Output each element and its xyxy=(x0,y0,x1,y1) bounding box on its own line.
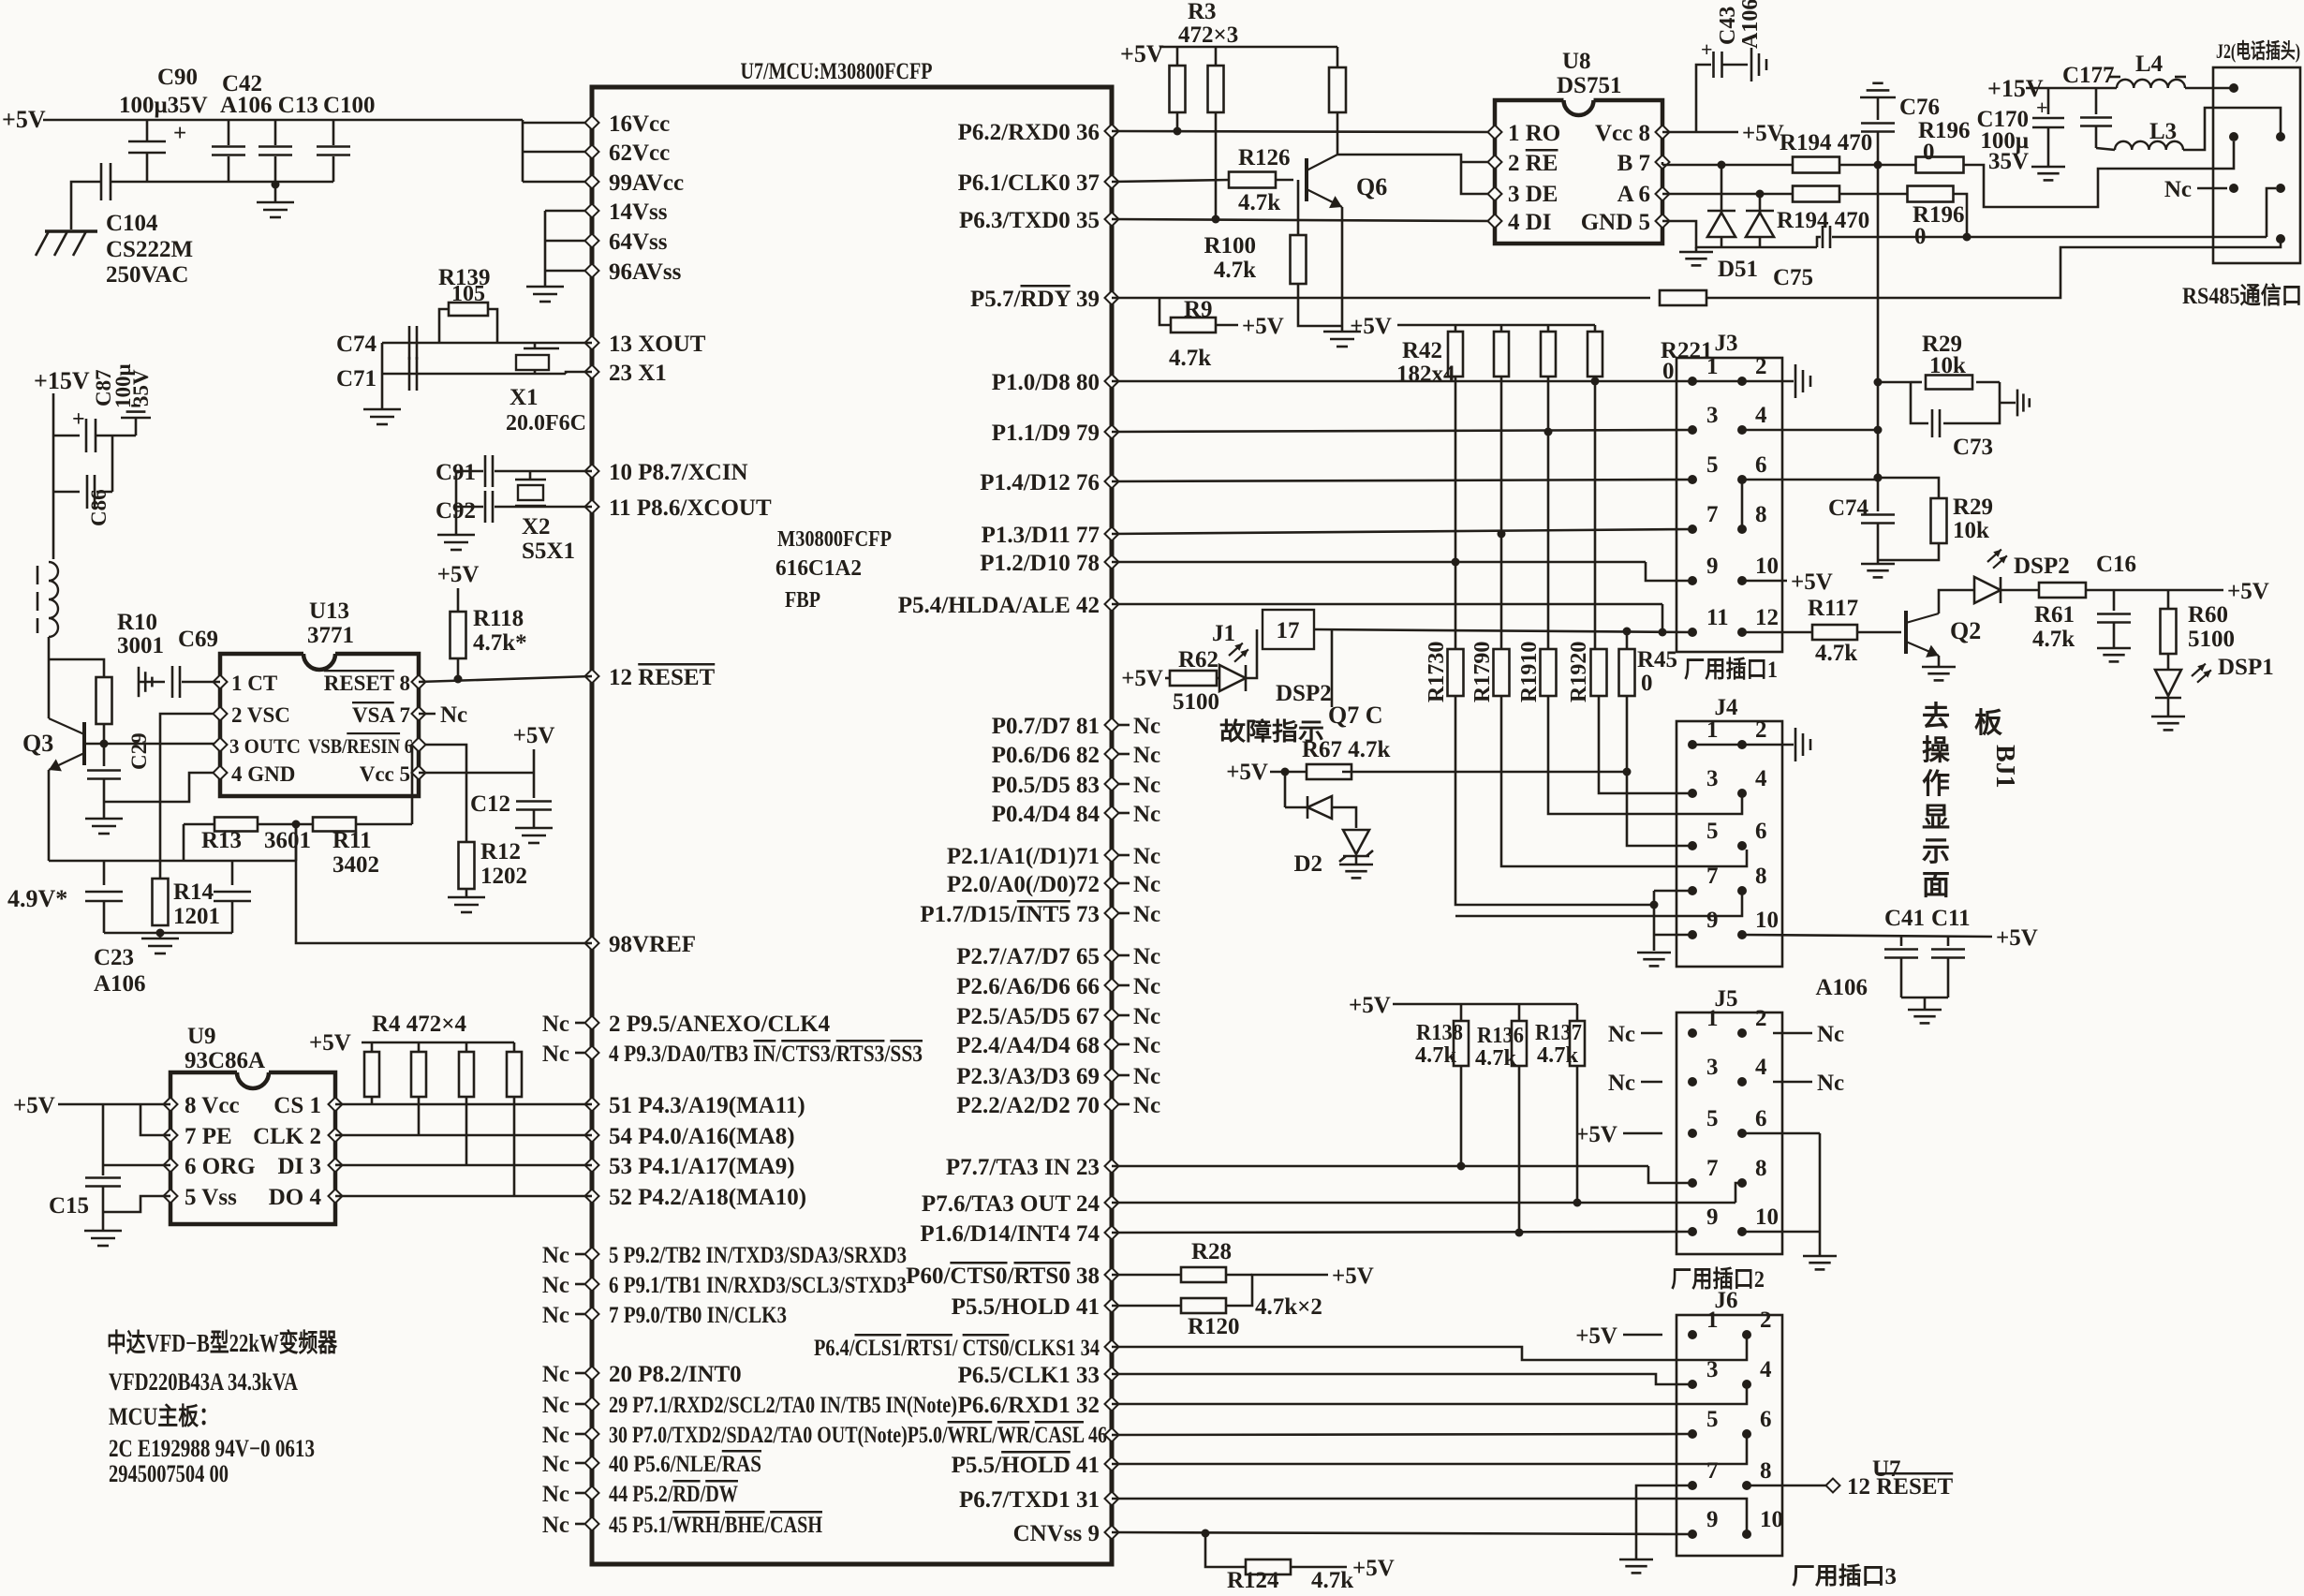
svg-text:DSP2: DSP2 xyxy=(1276,681,1332,706)
connector J4 box xyxy=(1676,721,1782,967)
svg-text:4.7k: 4.7k xyxy=(1169,346,1211,371)
svg-text:93C86A: 93C86A xyxy=(185,1048,265,1073)
svg-text:+5V: +5V xyxy=(1575,1122,1617,1147)
svg-text:P2.3/A3/D3 69: P2.3/A3/D3 69 xyxy=(956,1064,1100,1089)
wire Q7 stub xyxy=(1331,630,1334,707)
svg-text:5: 5 xyxy=(1706,819,1719,844)
svg-text:Nc: Nc xyxy=(542,1452,569,1477)
svg-text:C74: C74 xyxy=(1828,495,1869,521)
svg-text:M30800FCFP: M30800FCFP xyxy=(777,527,892,552)
svg-text:X1: X1 xyxy=(510,385,539,410)
svg-text:J4: J4 xyxy=(1715,695,1739,720)
svg-text:4 P9.3/DA0/TB3 IN/CTS3/RTS3/SS: 4 P9.3/DA0/TB3 IN/CTS3/RTS3/SS3 xyxy=(609,1042,923,1067)
svg-text:182x4: 182x4 xyxy=(1396,362,1455,387)
svg-text:DS751: DS751 xyxy=(1557,73,1621,98)
svg-text:P0.4/D4 84: P0.4/D4 84 xyxy=(992,802,1100,827)
capacitor C24 right xyxy=(231,861,234,885)
svg-text:35V: 35V xyxy=(1988,149,2029,174)
op-amp U13 3771 box xyxy=(303,654,335,670)
wire U9 Vss xyxy=(103,1196,170,1212)
svg-text:Nc: Nc xyxy=(1817,1022,1844,1047)
svg-text:3: 3 xyxy=(1706,1055,1719,1080)
wire U13 reset to MCU xyxy=(419,676,592,682)
pin left 1562 xyxy=(585,1456,599,1470)
wire Q6 emitter down xyxy=(1341,207,1344,332)
svg-text:+5V: +5V xyxy=(2227,579,2269,604)
svg-text:4.7k: 4.7k xyxy=(1311,1568,1353,1591)
diode D2 xyxy=(1284,772,1287,807)
svg-text:7: 7 xyxy=(1706,1156,1719,1181)
pin left 1594 xyxy=(585,1486,599,1500)
pin left 257 xyxy=(585,234,599,248)
wire +15V rail xyxy=(2026,87,2117,90)
J3 pins row 4 xyxy=(1688,525,1697,534)
svg-text:35V: 35V xyxy=(129,369,153,406)
pin left 289 xyxy=(585,264,599,278)
wire CLK1 to J6 pin3 xyxy=(1112,1374,1691,1384)
svg-text:4.7k: 4.7k xyxy=(1415,1043,1457,1068)
svg-text:R61: R61 xyxy=(2034,602,2075,628)
J6 pins row 5 xyxy=(1688,1529,1697,1539)
ground C73 xyxy=(2000,402,2016,405)
svg-text:Nc: Nc xyxy=(1608,1071,1635,1096)
pin left 503 xyxy=(585,465,599,479)
ground C43 rotated xyxy=(1750,48,1753,81)
svg-text:去: 去 xyxy=(1922,702,1950,732)
svg-text:R1730: R1730 xyxy=(1425,642,1449,702)
svg-text:J1: J1 xyxy=(1212,621,1235,646)
svg-text:C12: C12 xyxy=(470,791,510,817)
wire Q3 emitter xyxy=(48,770,51,861)
wire +15V down xyxy=(52,393,55,559)
svg-text:30 P7.0/TXD2/SDA2/TA0 OUT(Note: 30 P7.0/TXD2/SDA2/TA0 OUT(Note)P5.0/WRL/… xyxy=(609,1423,1107,1448)
svg-text:2: 2 xyxy=(1755,1006,1767,1031)
svg-text:10: 10 xyxy=(1755,908,1779,933)
pin left 1092 xyxy=(585,1016,599,1030)
op-amp U7 MCU M30800FCFP box xyxy=(592,87,1112,1564)
svg-text:4.7k: 4.7k xyxy=(1238,190,1280,215)
svg-text:P6.3/TXD0 35: P6.3/TXD0 35 xyxy=(959,208,1100,233)
svg-text:C75: C75 xyxy=(1773,265,1813,290)
pin left 162 xyxy=(585,145,599,159)
svg-text:5100: 5100 xyxy=(1173,689,1219,715)
J3 pins row 3 xyxy=(1688,475,1697,484)
svg-text:Nc: Nc xyxy=(1133,773,1160,798)
wire C29 gnd xyxy=(103,802,106,819)
svg-text:Nc: Nc xyxy=(2164,177,2192,202)
svg-text:C15: C15 xyxy=(49,1193,89,1219)
svg-text:+: + xyxy=(173,121,186,146)
svg-text:0: 0 xyxy=(1923,140,1935,165)
pin left 1179 xyxy=(585,1098,599,1112)
svg-text:96AVss: 96AVss xyxy=(609,259,682,285)
pin right 234 xyxy=(1105,213,1119,227)
svg-text:7 PE: 7 PE xyxy=(185,1124,232,1149)
wire RXD0 to U8 RO xyxy=(1112,131,1495,132)
resistor R4 b xyxy=(418,1042,421,1052)
wire U8 A line xyxy=(1662,193,1793,196)
svg-text:P6.4/CLS1/RTS1/ CTS0/CLKS1 34: P6.4/CLS1/RTS1/ CTS0/CLKS1 34 xyxy=(814,1336,1100,1361)
svg-text:0: 0 xyxy=(1641,671,1653,696)
svg-text:5: 5 xyxy=(1706,452,1719,478)
svg-text:P2.6/A6/D6 66: P2.6/A6/D6 66 xyxy=(956,974,1100,999)
svg-text:R1910: R1910 xyxy=(1517,642,1542,702)
svg-text:8: 8 xyxy=(1760,1458,1772,1484)
svg-text:Nc: Nc xyxy=(542,1513,569,1538)
svg-text:P0.5/D5 83: P0.5/D5 83 xyxy=(992,773,1100,798)
pin left 1007 xyxy=(585,937,599,951)
svg-text:J2(电话插头): J2(电话插头) xyxy=(2216,39,2300,63)
wire L3 to J2 xyxy=(2183,108,2281,150)
pin right 600 xyxy=(1105,555,1119,569)
svg-text:R120: R120 xyxy=(1188,1314,1240,1339)
wire to VREF xyxy=(296,824,592,943)
wire J4 pin10 to caps xyxy=(1742,935,1992,937)
pin left 541 xyxy=(585,500,599,514)
ground C87 xyxy=(121,417,151,420)
op-amp U8 DS751 box xyxy=(1564,100,1594,115)
ground R14 xyxy=(159,933,162,938)
J5 pins row 1 xyxy=(1688,1028,1697,1038)
svg-text:8: 8 xyxy=(1755,502,1767,527)
svg-text:+: + xyxy=(2036,96,2048,119)
wire D9 line xyxy=(1112,430,1692,432)
wire R13 left xyxy=(183,824,185,861)
svg-text:CLK 2: CLK 2 xyxy=(253,1124,321,1149)
wire RDY to R221 xyxy=(1112,297,1650,300)
node junction under C13 xyxy=(272,181,280,189)
wire TA3OUT line xyxy=(1112,1202,1735,1204)
svg-text:P5.5/HOLD 41: P5.5/HOLD 41 xyxy=(952,1453,1100,1478)
svg-text:P5.4/HLDA/ALE 42: P5.4/HLDA/ALE 42 xyxy=(898,593,1100,618)
svg-text:P1.3/D11 77: P1.3/D11 77 xyxy=(982,523,1100,548)
svg-text:R117: R117 xyxy=(1808,596,1858,621)
svg-text:45 P5.1/WRH/BHE/CASH: 45 P5.1/WRH/BHE/CASH xyxy=(609,1513,822,1538)
pin right 570 xyxy=(1105,527,1119,541)
wire R42 cols down to resistors xyxy=(1455,562,1457,650)
svg-text:7: 7 xyxy=(1706,502,1719,527)
wire X2 gnd column xyxy=(455,471,458,535)
resistor R3 b xyxy=(1215,47,1218,66)
resistor R42 c xyxy=(1547,325,1550,332)
wire J3 pin6 xyxy=(1742,479,1878,481)
svg-text:Nc: Nc xyxy=(1817,1071,1844,1096)
svg-text:10: 10 xyxy=(1760,1507,1783,1532)
wire J3 pin10 +5V xyxy=(1742,580,1787,583)
svg-text:Q2: Q2 xyxy=(1950,617,1981,644)
J6 pins row 4 xyxy=(1688,1481,1697,1490)
svg-text:Q6: Q6 xyxy=(1356,173,1387,200)
svg-text:C23: C23 xyxy=(94,945,134,970)
pin left 194 xyxy=(585,175,599,189)
svg-text:P5.5/HOLD 41: P5.5/HOLD 41 xyxy=(952,1294,1100,1320)
svg-text:C90: C90 xyxy=(157,65,198,90)
wire 4.9V bus xyxy=(49,860,296,863)
svg-text:P6.2/RXD0 36: P6.2/RXD0 36 xyxy=(958,120,1100,145)
svg-text:5 Vss: 5 Vss xyxy=(185,1185,237,1210)
svg-text:+5V: +5V xyxy=(1120,40,1164,67)
ground C170 xyxy=(2031,166,2065,169)
svg-text:6 P9.1/TB1 IN/RXD3/SCL3/STXD3: 6 P9.1/TB1 IN/RXD3/SCL3/STXD3 xyxy=(609,1273,907,1298)
wire R11 to R12 col xyxy=(411,745,414,824)
earth ground C104 xyxy=(45,229,97,233)
pin right 1438 xyxy=(1105,1340,1119,1354)
diode D51b xyxy=(1756,190,1765,199)
wire CLK0 to R126 xyxy=(1112,180,1229,182)
svg-text:2: 2 xyxy=(1755,354,1767,379)
svg-text:+5V: +5V xyxy=(1352,1556,1395,1581)
svg-text:44 P5.2/RD/DW: 44 P5.2/RD/DW xyxy=(609,1482,738,1507)
pin right 1394 xyxy=(1105,1299,1119,1313)
svg-text:C104: C104 xyxy=(106,211,158,236)
wire D8 line xyxy=(1112,380,1692,383)
inductor L core xyxy=(37,566,39,584)
wire TA3IN line xyxy=(1112,1165,1648,1168)
svg-text:62Vcc: 62Vcc xyxy=(609,140,670,166)
wire L4 to J2 pin1 xyxy=(2185,87,2234,90)
svg-text:Nc: Nc xyxy=(1608,1022,1635,1047)
svg-text:C100: C100 xyxy=(323,93,376,118)
wire J3 pin4 xyxy=(1742,429,1878,432)
svg-text:Nc: Nc xyxy=(1133,802,1160,827)
wire U8 Vcc to +5V xyxy=(1662,131,1738,134)
svg-text:3601: 3601 xyxy=(264,828,311,853)
pin right 318 xyxy=(1105,291,1119,305)
svg-text:4.7k*: 4.7k* xyxy=(473,630,527,656)
svg-text:P2.7/A7/D7 65: P2.7/A7/D7 65 xyxy=(956,944,1100,969)
svg-text:Nc: Nc xyxy=(542,1042,569,1067)
wire WRL to J6 pin5 xyxy=(1112,1434,1691,1435)
svg-text:Nc: Nc xyxy=(542,1012,569,1037)
svg-text:+5V: +5V xyxy=(1226,760,1268,785)
wire left xtal xyxy=(381,343,384,409)
svg-text:A106: A106 xyxy=(1815,975,1868,1000)
LED DSP2 b xyxy=(1987,550,2001,562)
pin left 1627 xyxy=(585,1517,599,1531)
J4 pins row 4 xyxy=(1688,886,1697,895)
wire RXD1 to J6 pin4 xyxy=(1112,1384,1747,1404)
svg-text:Vcc 5: Vcc 5 xyxy=(360,762,410,786)
svg-text:98VREF: 98VREF xyxy=(609,932,696,957)
svg-text:7 P9.0/TB0 IN/CLK3: 7 P9.0/TB0 IN/CLK3 xyxy=(609,1303,787,1328)
svg-text:Nc: Nc xyxy=(1133,743,1160,768)
wire B line to J2 xyxy=(1964,141,2234,207)
svg-text:4: 4 xyxy=(1755,1055,1767,1080)
wire INT4 line xyxy=(1112,1232,1691,1233)
ground C12 xyxy=(515,827,553,830)
svg-text:Nc: Nc xyxy=(542,1482,569,1507)
svg-text:X2: X2 xyxy=(522,514,551,539)
wire J6 pin8 reset xyxy=(1747,1485,1826,1487)
svg-text:6: 6 xyxy=(1755,452,1767,478)
svg-text:DSP1: DSP1 xyxy=(2218,655,2274,680)
svg-text:9: 9 xyxy=(1706,554,1719,579)
pin right 868 xyxy=(1105,806,1119,820)
svg-text:Nc: Nc xyxy=(440,702,467,728)
svg-text:R67 4.7k: R67 4.7k xyxy=(1302,737,1391,762)
ground C29 xyxy=(85,818,123,820)
svg-text:6: 6 xyxy=(1755,1106,1767,1131)
J4 pins row 1 xyxy=(1688,740,1697,749)
svg-text:1: 1 xyxy=(1706,717,1719,743)
pin left 1277 xyxy=(585,1190,599,1204)
svg-text:52 P4.2/A18(MA10): 52 P4.2/A18(MA10) xyxy=(609,1185,806,1210)
wire Q2 collector to LED xyxy=(1939,590,1974,613)
ground C15 xyxy=(84,1230,122,1233)
svg-text:0: 0 xyxy=(1914,224,1927,249)
wire R1920 to J4 pin3 xyxy=(1599,696,1692,793)
J5 pins row 2 xyxy=(1688,1077,1697,1086)
svg-text:17: 17 xyxy=(1277,618,1300,643)
svg-text:1 CT: 1 CT xyxy=(231,672,277,695)
svg-text:R3: R3 xyxy=(1188,0,1217,24)
svg-text:Nc: Nc xyxy=(1133,872,1160,897)
pin right 975 xyxy=(1105,907,1119,921)
svg-text:6: 6 xyxy=(1760,1407,1772,1432)
pin left 1531 xyxy=(585,1427,599,1441)
wire R1730 to J4 pin7/9 xyxy=(1455,696,1654,905)
wire R9 branch xyxy=(1159,298,1171,325)
J3 pins row 5 xyxy=(1688,576,1697,585)
svg-text:显: 显 xyxy=(1922,803,1950,834)
svg-text:Nc: Nc xyxy=(542,1362,569,1387)
pin right 774 xyxy=(1105,718,1119,732)
wire TXD0 to U8 DI xyxy=(1112,219,1495,221)
wire U9 PE xyxy=(140,1104,170,1135)
svg-text:10: 10 xyxy=(1755,1204,1779,1230)
svg-text:面: 面 xyxy=(1922,870,1950,901)
ground D2 xyxy=(1339,864,1373,866)
svg-text:+5V: +5V xyxy=(1791,569,1833,595)
wire J3 pin6-8 link xyxy=(1741,480,1744,529)
svg-text:100μ35V: 100μ35V xyxy=(119,93,208,118)
svg-text:64Vss: 64Vss xyxy=(609,229,668,255)
svg-text:R62: R62 xyxy=(1178,647,1218,672)
svg-text:+5V: +5V xyxy=(437,562,480,587)
J5 pins row 3 xyxy=(1688,1129,1697,1138)
svg-text:1202: 1202 xyxy=(480,864,527,889)
wire R1910 to J4 pin4 xyxy=(1548,696,1742,814)
svg-text:A106 C13: A106 C13 xyxy=(220,93,318,118)
wire U9 ORG xyxy=(103,1164,170,1167)
svg-text:P5.7/RDY 39: P5.7/RDY 39 xyxy=(970,287,1100,312)
svg-text:+5V: +5V xyxy=(309,1030,351,1056)
J3 pins row 6 xyxy=(1688,628,1697,637)
wire Vcc bus xyxy=(522,120,524,182)
svg-text:DSP2: DSP2 xyxy=(2014,554,2070,579)
wire TXD1 to J6 pin10 xyxy=(1112,1499,1747,1534)
svg-text:1: 1 xyxy=(1706,1308,1719,1333)
svg-text:4.7k: 4.7k xyxy=(1537,1043,1579,1068)
svg-text:R60: R60 xyxy=(2188,602,2228,628)
svg-text:RS485通信口: RS485通信口 xyxy=(2182,283,2302,309)
wire J2 row3 to C75 line xyxy=(2267,188,2276,237)
pin right 913 xyxy=(1105,849,1119,863)
svg-text:Nc: Nc xyxy=(1133,714,1160,739)
wire C71 line xyxy=(382,373,566,376)
svg-text:+5V: +5V xyxy=(1332,1263,1374,1289)
svg-text:2945007504 00: 2945007504 00 xyxy=(109,1460,229,1487)
svg-text:5 P9.2/TB2 IN/TXD3/SDA3/SRXD3: 5 P9.2/TB2 IN/TXD3/SDA3/SRXD3 xyxy=(609,1243,907,1268)
pin left 131 xyxy=(585,116,599,130)
svg-text:R100: R100 xyxy=(1204,233,1256,259)
J3 pins row 2 xyxy=(1688,425,1697,435)
node R14 bottom xyxy=(156,929,165,938)
svg-text:11 P8.6/XCOUT: 11 P8.6/XCOUT xyxy=(609,495,772,521)
pin right 1245 xyxy=(1105,1160,1119,1174)
svg-text:3 OUTC: 3 OUTC xyxy=(229,734,301,758)
wire C76 column down xyxy=(1877,165,1880,478)
resistor R4 a xyxy=(371,1042,374,1052)
wire U13 VSC pin xyxy=(160,714,220,879)
wire R100 bottom xyxy=(1298,284,1342,326)
pin right 1361 xyxy=(1105,1268,1119,1282)
svg-text:DI 3: DI 3 xyxy=(277,1154,321,1179)
svg-text:12 RESET: 12 RESET xyxy=(609,665,716,690)
svg-text:+5V: +5V xyxy=(1349,993,1391,1018)
wire HOLD to J6 pin6 xyxy=(1112,1434,1747,1464)
ground X2 xyxy=(437,534,475,537)
svg-text:厂用插口1: 厂用插口1 xyxy=(1684,657,1778,683)
resistor R42 a xyxy=(1455,325,1457,332)
pin right 140 xyxy=(1105,125,1119,139)
J4 pins row 2 xyxy=(1688,789,1697,798)
svg-text:+: + xyxy=(72,407,85,432)
svg-text:13 XOUT: 13 XOUT xyxy=(609,332,706,357)
wire U8 GND pin xyxy=(1662,221,1817,247)
svg-text:12 RESET: 12 RESET xyxy=(1847,1474,1954,1500)
pin left 225 xyxy=(585,204,599,218)
wire bus to R13 xyxy=(295,824,298,861)
node Q3 base xyxy=(100,740,109,748)
svg-text:20 P8.2/INT0: 20 P8.2/INT0 xyxy=(609,1362,742,1387)
pin right 1467 xyxy=(1105,1367,1119,1382)
svg-text:11: 11 xyxy=(1706,605,1729,630)
pin right 645 xyxy=(1105,598,1119,612)
svg-text:P6.5/CLK1 33: P6.5/CLK1 33 xyxy=(958,1363,1100,1388)
svg-text:操: 操 xyxy=(1922,735,1951,766)
svg-text:P1.0/D8 80: P1.0/D8 80 xyxy=(992,370,1100,395)
svg-text:D51: D51 xyxy=(1718,257,1758,282)
wire J6 pin7 ground xyxy=(1636,1485,1691,1559)
node R3a RXD0 xyxy=(1174,127,1182,136)
svg-text:P1.7/D15/INT5 73: P1.7/D15/INT5 73 xyxy=(920,902,1100,927)
svg-text:R137: R137 xyxy=(1535,1021,1582,1045)
connector J2 box xyxy=(2213,67,2300,263)
svg-text:+5V: +5V xyxy=(1996,925,2038,951)
svg-text:5100: 5100 xyxy=(2188,627,2235,652)
svg-text:Nc: Nc xyxy=(542,1423,569,1448)
wire R10 to node xyxy=(103,724,106,766)
wire DO to MCU xyxy=(335,1195,592,1198)
svg-text:23 X1: 23 X1 xyxy=(609,361,667,386)
resistor R42 b xyxy=(1500,325,1503,332)
svg-text:14Vss: 14Vss xyxy=(609,199,668,225)
svg-text:Nc: Nc xyxy=(1133,1064,1160,1089)
svg-text:Vcc 8: Vcc 8 xyxy=(1595,121,1650,146)
svg-text:1: 1 xyxy=(1706,1006,1719,1031)
wire X1 pin xyxy=(566,372,592,374)
resistor R3 a xyxy=(1176,47,1179,66)
svg-text:P1.1/D9 79: P1.1/D9 79 xyxy=(992,421,1100,446)
svg-text:B 7: B 7 xyxy=(1617,151,1650,176)
pin right 1052 xyxy=(1105,979,1119,993)
pin right 1148 xyxy=(1105,1069,1119,1083)
op-amp U9 93C86A box xyxy=(237,1072,269,1088)
svg-text:P0.6/D6 82: P0.6/D6 82 xyxy=(992,743,1100,768)
svg-text:R126: R126 xyxy=(1238,145,1291,170)
inductor coil xyxy=(49,562,58,637)
